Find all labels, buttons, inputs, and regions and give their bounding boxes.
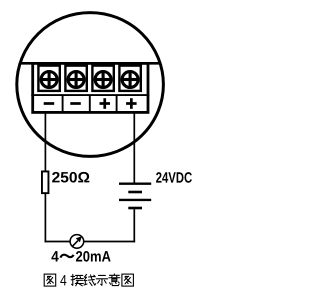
terminal 1 polarity minus [44,102,55,105]
label cell divider 2 [89,95,91,112]
bottom wire [45,241,136,243]
battery plate long 2 [119,199,151,201]
housing circle [17,13,164,157]
current range label 20mA [76,251,111,262]
current range tilde [60,255,73,258]
caption char 意 [109,274,120,286]
screw 4 head [122,72,138,88]
terminal 4 polarity plus [126,98,137,109]
wire right from battery to bottom [133,209,135,242]
label cell divider 3 [116,95,118,112]
current range label 4 [51,251,58,261]
battery value label [156,172,192,183]
screw terminal 4 square [119,66,140,91]
label row separator [31,94,149,96]
battery plate short 2 [128,207,142,210]
ammeter M circle [70,235,84,249]
terminal block outline [33,63,148,112]
battery BT 24VDC plate long 1 [119,182,151,184]
screw 2 head [68,72,84,88]
resistor R 250 ohm [42,171,49,193]
terminal 2 polarity minus [70,102,81,105]
wire left from resistor to bottom [44,194,46,243]
caption char 图 [44,274,56,286]
caption char 接 [71,274,83,285]
screw terminal 1 square [38,66,59,91]
ammeter arrow [72,236,82,246]
caption char 示 [96,275,108,285]
screw terminal 3 square [92,66,113,91]
screw terminal 2 square [65,66,86,91]
wire left from terminal 1 to resistor [44,111,46,171]
screw 3 head [95,72,111,88]
wire right from terminal 4 to battery [133,111,135,183]
terminal 3 polarity plus [100,98,111,109]
label cell divider 1 [62,95,64,112]
caption numeral 4 [60,275,66,285]
caption char 线 [84,274,96,285]
battery plate short 1 [128,191,142,194]
screw 1 head [41,72,57,88]
caption char 图 [122,274,133,286]
resistor value label [52,172,89,183]
chord line across housing [20,62,161,65]
